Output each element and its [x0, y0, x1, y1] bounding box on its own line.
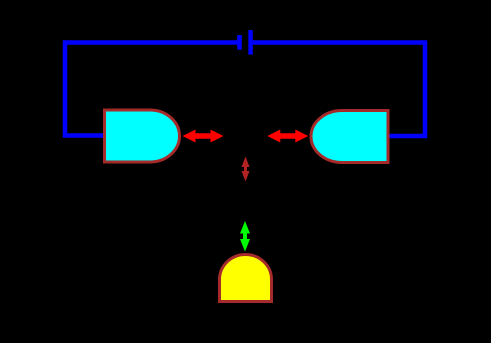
red double arrow at right electrode nose: [267, 130, 308, 143]
small dark-red vertical double arrow (centre field): [242, 157, 250, 182]
flame / burner dome (yellow): [220, 254, 272, 301]
right electrode plate (cyan, rounded nose facing left): [311, 111, 388, 163]
left electrode plate (cyan, rounded nose facing right): [105, 110, 180, 162]
battery B1 short plate (negative terminal): [237, 35, 242, 50]
wire: right loop from battery plus terminal across and down to right electrode: [253, 43, 425, 137]
green vertical double arrow above flame: [240, 221, 250, 252]
red double arrow at left electrode nose: [183, 130, 224, 143]
battery B1 long plate (positive terminal): [248, 30, 253, 54]
wire: left loop from left electrode up and across to battery minus terminal: [65, 43, 237, 136]
